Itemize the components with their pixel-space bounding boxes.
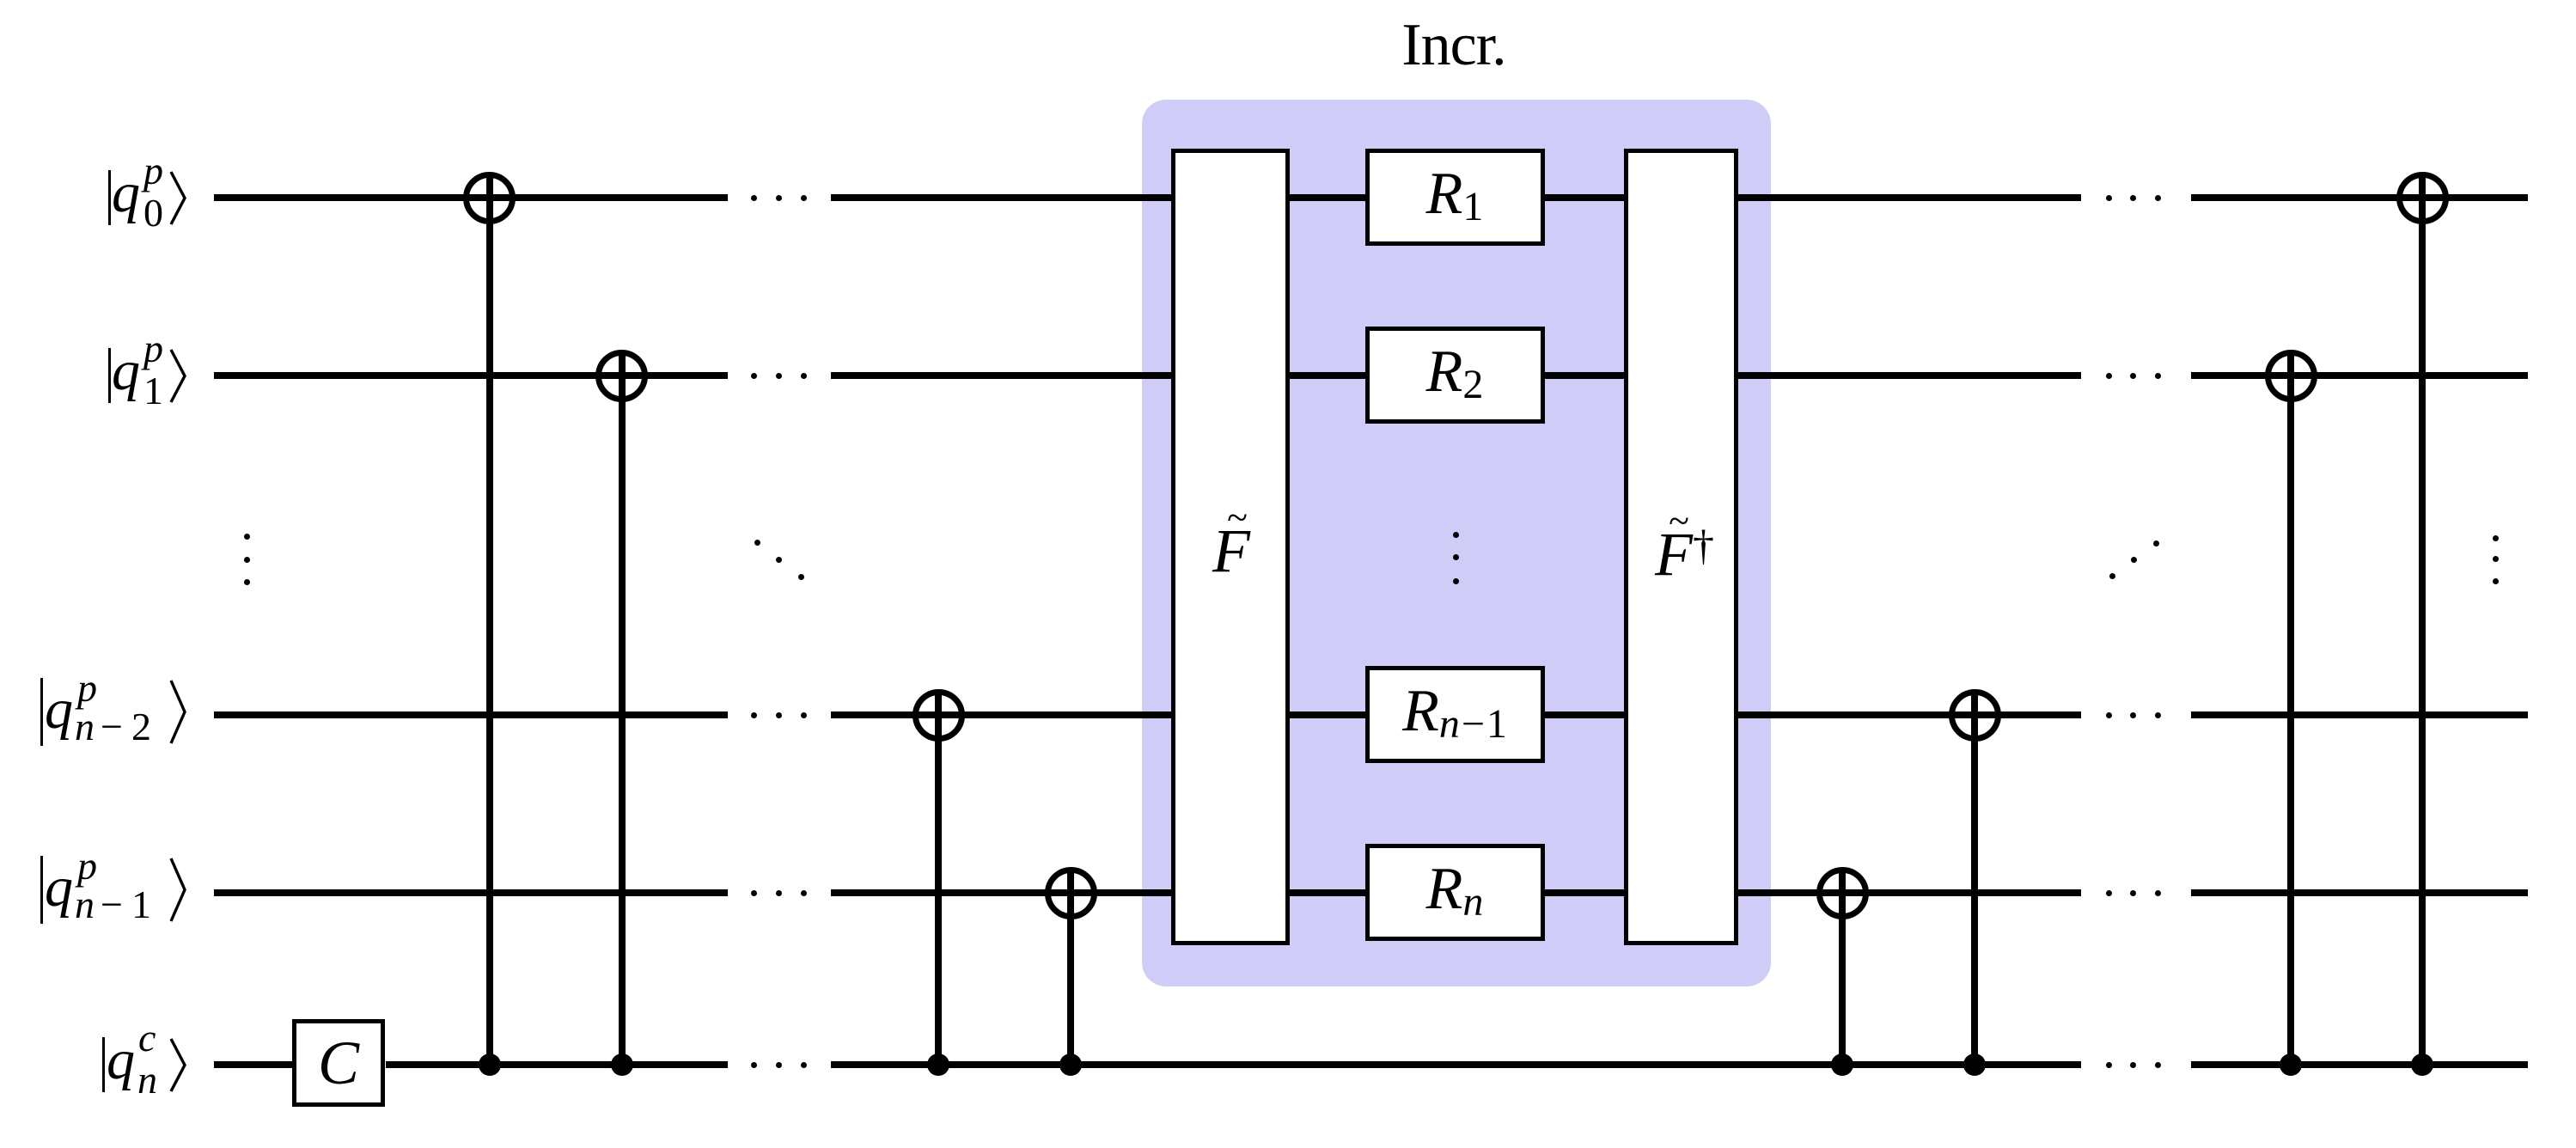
vdots label column: [244, 534, 250, 540]
wire qnc seg a: [214, 1061, 293, 1068]
control dot G: [2280, 1053, 2302, 1076]
wire CNOT C vertical: [935, 690, 942, 1069]
gate Ftilde label: [1188, 520, 1274, 582]
CNOT target A: [463, 172, 516, 224]
wire CNOT G vertical: [2287, 351, 2294, 1069]
label Incr.: [1368, 15, 1540, 76]
wire q1 seg c: [2191, 372, 2528, 379]
gate box Ftilde: [1171, 149, 1290, 945]
wire q1 seg b: [831, 372, 2081, 379]
gate box Rn: [1365, 844, 1545, 941]
wire CNOT E vertical: [1839, 868, 1846, 1069]
control dot F: [1963, 1053, 1986, 1076]
ellipsis dots column 2: [2106, 195, 2112, 201]
wire q1 seg a: [214, 372, 728, 379]
vdots inside Incr: [1453, 532, 1459, 538]
gate Fdagger label: [1631, 523, 1717, 585]
wire qn-1 seg a: [214, 889, 728, 896]
wire q0 seg a: [214, 194, 728, 201]
control dot D: [1059, 1053, 1082, 1076]
gate-group highlight panel "Incr.": [1142, 100, 1771, 986]
gate C label: [296, 1032, 382, 1094]
wire qn-2 seg b: [831, 711, 2081, 718]
wire CNOT H vertical: [2419, 173, 2426, 1069]
qubit label |q_0^p>: [108, 170, 111, 225]
CNOT target F: [1949, 689, 2001, 742]
wire qn-1 seg b: [831, 889, 2081, 896]
qubit label |q_n^c>: [102, 1037, 105, 1092]
gate box C: [292, 1019, 385, 1107]
qubit label |q_1^p>: [108, 348, 111, 403]
vdots right column: [2493, 535, 2499, 541]
wire CNOT A vertical: [486, 173, 493, 1069]
qubit label |q_n-1^p>: [40, 856, 43, 924]
wire q0 seg c: [2191, 194, 2528, 201]
ellipsis dots column 1: [751, 195, 757, 201]
wire q0 seg b: [831, 194, 2081, 201]
gate Rn label: [1365, 859, 1546, 923]
control dot H: [2411, 1053, 2433, 1076]
CNOT target E: [1816, 867, 1869, 919]
wire CNOT D vertical: [1067, 868, 1074, 1069]
wire qn-1 seg c: [2191, 889, 2528, 896]
control dot C: [927, 1053, 949, 1076]
CNOT target C: [913, 689, 965, 742]
gate box Fdag: [1624, 149, 1738, 945]
wire CNOT F vertical: [1971, 690, 1978, 1069]
wire qnc seg d: [2191, 1061, 2528, 1068]
gate R1 label: [1365, 164, 1546, 228]
gate box R2: [1365, 327, 1545, 424]
control dot B: [611, 1053, 633, 1076]
gate box R1: [1365, 149, 1545, 246]
ddots after column B: [754, 540, 760, 546]
ddots right (rising): [2109, 573, 2115, 579]
control dot E: [1831, 1053, 1853, 1076]
CNOT target G: [2265, 350, 2317, 402]
wire qn-2 seg c: [2191, 711, 2528, 718]
CNOT target D: [1045, 867, 1097, 919]
wire CNOT B vertical: [619, 351, 626, 1069]
qubit label |q_n-2^p>: [40, 678, 43, 746]
wire qnc seg b: [386, 1061, 728, 1068]
gate R2 label: [1365, 342, 1546, 406]
CNOT target H: [2396, 172, 2449, 224]
wire qnc seg c: [831, 1061, 2081, 1068]
gate box Rn-1: [1365, 666, 1545, 763]
wire qn-2 seg a: [214, 711, 728, 718]
control dot A: [479, 1053, 501, 1076]
gate Rn-1 label: [1365, 681, 1546, 745]
CNOT target B: [595, 350, 648, 402]
